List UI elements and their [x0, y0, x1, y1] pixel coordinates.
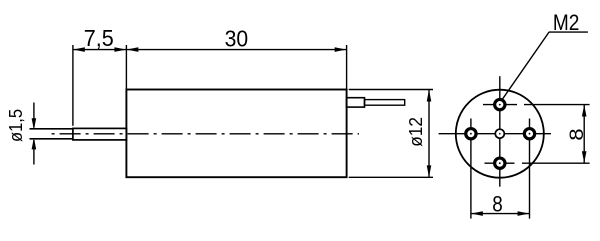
extension line for 8 vertical dim, from top hole — [483, 104, 590, 106]
mounting hole right (M2) — [524, 129, 534, 139]
dimension line 8 bottom — [471, 213, 530, 215]
arrowhead 30 right — [335, 48, 344, 52]
mounting hole left (M2) — [466, 129, 476, 139]
dimension text ø12 — [406, 117, 426, 147]
dimension text 8 right — [567, 128, 588, 140]
centerline of side view — [50, 133, 359, 135]
mounting hole top (M2) — [495, 99, 505, 109]
dimension line ø1,5 lower segment — [33, 140, 35, 165]
label M2 — [553, 10, 580, 35]
svg-text:8: 8 — [492, 192, 503, 217]
extension line ø12 bottom — [349, 176, 433, 178]
extension line for 8 vertical dim, from bottom hole — [485, 162, 590, 164]
arrowhead ø1,5 bottom — [32, 140, 36, 149]
terminal tab wide part — [347, 98, 365, 107]
svg-text:ø12: ø12 — [406, 117, 426, 147]
extension line above body right edge — [346, 45, 348, 90]
arrowhead 8 bottom left — [473, 212, 482, 216]
extension line left of 7,5 dimension — [72, 45, 74, 126]
dimension text 7,5 — [84, 25, 114, 51]
end view outer circle (ø12) — [456, 90, 544, 178]
arrowhead 8 bottom right — [518, 212, 527, 216]
terminal tab thin part — [365, 100, 405, 106]
svg-text:30: 30 — [225, 25, 249, 51]
extension line above body left edge — [125, 45, 127, 90]
arrowhead 7,5 left — [75, 48, 84, 52]
arrowhead ø1,5 top — [32, 119, 36, 128]
arrowhead ø12 bottom — [427, 166, 431, 175]
svg-text:7,5: 7,5 — [84, 25, 114, 51]
dimension text 8 bottom — [492, 192, 503, 217]
extension line ø12 top — [349, 89, 433, 91]
dimension line ø1,5 upper segment — [33, 103, 35, 128]
dimension line 7,5 and 30 — [73, 49, 347, 51]
dimension line ø12 — [428, 90, 430, 178]
dimension text 30 — [225, 25, 249, 51]
svg-text:ø1,5: ø1,5 — [6, 109, 26, 142]
bearing bushing (7.5 long) — [73, 128, 127, 140]
arrowhead 30 left — [129, 48, 138, 52]
end view horizontal centerline — [439, 133, 551, 135]
center shaft hole (ø1,5) — [495, 129, 504, 138]
extension line for 8 horizontal dim, left hole — [470, 119, 472, 219]
dimension line 8 right — [583, 105, 585, 164]
dimension text ø1,5 — [6, 109, 26, 142]
end view vertical centerline — [499, 76, 501, 187]
shaft (front, ø1.5) — [30, 129, 73, 139]
M2 leader line — [501, 32, 588, 101]
svg-text:8: 8 — [567, 128, 588, 140]
mounting hole bottom (M2) — [495, 158, 505, 168]
svg-text:M2: M2 — [553, 10, 580, 35]
motor body (30 x ø12) — [126, 90, 346, 178]
arrowhead ø12 top — [427, 92, 431, 101]
arrowhead 8 right top — [582, 107, 586, 116]
arrowhead 8 right bottom — [582, 152, 586, 161]
arrowhead 7,5 right — [115, 48, 124, 52]
extension line for 8 horizontal dim, right hole — [529, 119, 531, 219]
